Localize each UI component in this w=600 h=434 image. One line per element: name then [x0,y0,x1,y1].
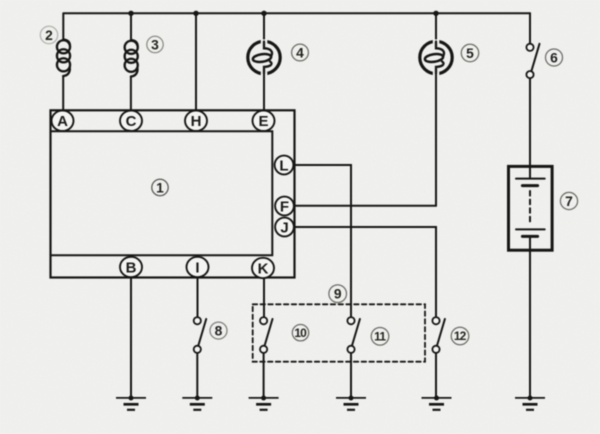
battery 7 [509,166,553,250]
wire bus down to lamp 4 [263,13,265,42]
wire lamp 5 down to terminal F line [435,74,437,206]
svg-text:3: 3 [151,37,159,52]
unit 1 outer box [51,110,295,277]
node bus-coil 3 junction [128,11,133,16]
terminal L [275,156,294,175]
node bus-H junction [193,11,198,16]
svg-text:B: B [126,259,137,276]
wire coil 3 to terminal C [130,77,132,111]
wire bus corner down to switch 6 [529,13,531,43]
svg-text:E: E [258,113,268,130]
label 10 (switch) [292,325,308,341]
terminal E [253,111,275,131]
ground under switch 8 [182,396,212,410]
wire top supply bus [64,12,530,14]
label 11 (switch) [371,328,389,346]
label 4 (lamp) [292,44,309,61]
lamp 4 (bulb) [248,39,280,75]
switch 11 [347,317,360,353]
label 8 (switch) [210,322,227,339]
terminal J [275,218,294,237]
wire switch 10 to ground [263,353,265,397]
terminal F [275,197,294,216]
svg-text:L: L [279,157,288,174]
coil 3 (winding) [125,40,138,77]
ground under switch 12 [422,396,452,410]
wire terminal B to ground [130,278,132,398]
wire bus down to coil 3 [130,13,132,40]
svg-text:11: 11 [374,330,386,344]
svg-text:K: K [258,260,269,277]
svg-text:A: A [57,113,68,130]
label 12 (switch) [451,327,469,345]
svg-text:10: 10 [294,326,307,340]
wire terminal I to switch 8 [197,278,199,318]
lamp 5 (bulb) [420,39,452,75]
svg-text:C: C [126,113,137,130]
svg-text:12: 12 [454,329,467,343]
label 5 (lamp) [461,44,478,61]
terminal B [120,257,142,277]
terminal C [120,111,142,131]
svg-text:1: 1 [156,180,164,195]
switch 6 [526,44,539,78]
ground under battery 7 [515,396,545,410]
label 1 (unit) [152,179,168,195]
wire switch 11 to ground [350,353,352,397]
svg-text:2: 2 [45,28,53,43]
label 6 (switch) [546,49,563,66]
wire terminal J to switch 12 [294,227,436,317]
svg-text:6: 6 [550,51,558,66]
ground under switch 10 [249,396,279,410]
svg-text:7: 7 [565,194,573,209]
svg-text:5: 5 [466,46,474,61]
node bus-lamp 5 junction [433,11,438,16]
unit 1 inner box [51,131,273,255]
wire terminal K to switch 10 [263,278,265,318]
switch 10 [260,317,273,353]
svg-text:8: 8 [215,324,223,339]
terminal A [52,111,74,131]
svg-text:4: 4 [296,46,304,61]
node bus-lamp 4 junction [261,11,266,16]
wire bus down to coil 2 [62,13,64,40]
ground under terminal B [116,396,146,410]
coil 2 (winding) [57,40,70,77]
ground under switch 11 [336,396,366,410]
wire coil 2 to terminal A [62,76,64,111]
wire switch 12 to ground [435,353,437,397]
switch 12 [432,317,445,353]
label 9 (enclosure) [329,285,347,303]
wire lamp 4 to terminal E [263,74,265,111]
terminal I [187,257,209,277]
terminal K [252,258,274,278]
wire bus down to terminal H [195,13,197,110]
label 2 (coil) [40,26,57,43]
svg-text:9: 9 [334,287,342,302]
label 3 (coil) [147,36,163,52]
terminal H [185,111,207,131]
svg-text:J: J [280,219,288,236]
switch 8 [194,317,207,353]
wire terminal L to switch 11 [294,165,351,317]
dashed enclosure 9 around switches 10 and 11 [253,304,425,361]
wire switch 6 to battery 7 [529,78,531,178]
wire switch 8 to ground [196,353,198,397]
wire bus down to lamp 5 [435,13,437,42]
svg-text:I: I [195,259,199,276]
label 7 (battery) [560,192,577,209]
svg-text:H: H [191,113,202,130]
wire terminal F to lamp 5 branch [294,205,436,207]
wire battery 7 to ground [529,238,531,397]
svg-text:F: F [280,198,289,215]
